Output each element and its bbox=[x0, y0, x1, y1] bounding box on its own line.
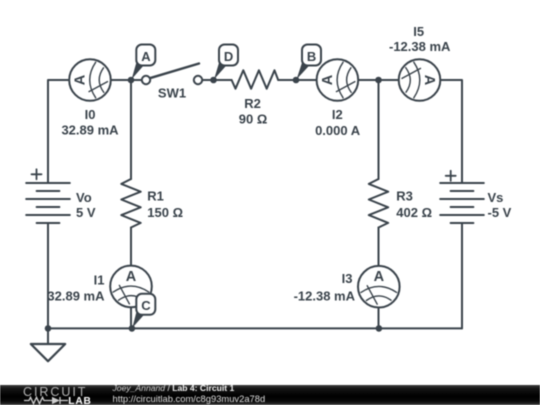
wire left rail top bbox=[48, 80, 70, 183]
svg-text:R3: R3 bbox=[396, 189, 413, 204]
node junction dot C bbox=[129, 325, 136, 332]
svg-text:150 Ω: 150 Ω bbox=[147, 205, 183, 220]
wire bottom rail bbox=[48, 327, 462, 329]
junction dot top right bbox=[375, 77, 382, 84]
wire battery Vo to bottom rail bbox=[47, 223, 49, 328]
wire I5 to right rail bbox=[440, 80, 462, 183]
node junction dot D bbox=[210, 77, 217, 84]
wire battery Vs to bottom rail bbox=[461, 223, 463, 328]
ammeter I2 bbox=[317, 59, 359, 101]
wire I1 to bottom rail bbox=[130, 308, 132, 329]
ammeter I1 bbox=[110, 266, 152, 308]
svg-text:32.89 mA: 32.89 mA bbox=[61, 123, 119, 138]
node A label bbox=[132, 45, 156, 80]
node junction dot A bbox=[128, 77, 135, 84]
svg-text:R2: R2 bbox=[244, 96, 261, 111]
svg-text:Vo: Vo bbox=[76, 190, 92, 205]
svg-text:A: A bbox=[421, 75, 437, 86]
ground bbox=[31, 344, 65, 361]
wire I0 to switch bbox=[111, 79, 146, 81]
wire R2 to I2 bbox=[278, 79, 317, 81]
svg-text:I3: I3 bbox=[342, 271, 353, 286]
svg-text:-5 V: -5 V bbox=[488, 205, 512, 220]
junction dot bottom left bbox=[45, 325, 52, 332]
svg-text:90 Ω: 90 Ω bbox=[239, 112, 268, 127]
resistor R1 bbox=[121, 179, 140, 228]
wire R1 to I1 bbox=[130, 228, 132, 266]
svg-text:I2: I2 bbox=[332, 107, 343, 122]
wire I3 to bottom rail bbox=[378, 308, 380, 328]
wire R3 to I3 bbox=[378, 228, 380, 266]
footer title text bbox=[113, 383, 235, 393]
junction dot bottom right bbox=[376, 325, 383, 332]
svg-text:I0: I0 bbox=[85, 107, 96, 122]
svg-text:32.89 mA: 32.89 mA bbox=[47, 289, 105, 304]
svg-text:-12.38 mA: -12.38 mA bbox=[294, 289, 356, 304]
wire switch to R2 bbox=[198, 79, 232, 81]
battery Vs bbox=[440, 183, 484, 223]
node B label bbox=[297, 45, 321, 80]
svg-text:R1: R1 bbox=[147, 189, 164, 204]
svg-text:-12.38 mA: -12.38 mA bbox=[389, 39, 451, 54]
ammeter I3 bbox=[358, 266, 400, 308]
footer url bbox=[113, 393, 266, 404]
svg-text:B: B bbox=[307, 49, 316, 64]
battery Vo bbox=[26, 183, 70, 223]
svg-text:I5: I5 bbox=[413, 24, 424, 39]
svg-text:0.000 A: 0.000 A bbox=[315, 123, 361, 138]
node junction dot B bbox=[293, 77, 300, 84]
footer bar bbox=[0, 385, 540, 405]
svg-text:D: D bbox=[224, 49, 233, 64]
svg-text:402 Ω: 402 Ω bbox=[396, 205, 432, 220]
svg-text:LAB: LAB bbox=[68, 396, 91, 405]
svg-text:A: A bbox=[126, 269, 137, 285]
node D label bbox=[214, 45, 238, 80]
switch SW1 bbox=[142, 64, 202, 85]
svg-text:A: A bbox=[73, 74, 89, 85]
ammeter I0 bbox=[69, 59, 111, 101]
svg-text:A: A bbox=[374, 269, 385, 285]
wire I2 to I5 bbox=[358, 79, 399, 81]
wire node A down to R1 bbox=[130, 80, 132, 179]
svg-text:5 V: 5 V bbox=[76, 205, 96, 220]
svg-text:SW1: SW1 bbox=[158, 86, 186, 101]
svg-text:I1: I1 bbox=[94, 273, 105, 288]
CircuitLab logo bbox=[0, 385, 110, 405]
svg-text:A: A bbox=[141, 49, 151, 64]
wire top junction down to R3 bbox=[378, 80, 380, 179]
resistor R3 bbox=[369, 179, 388, 228]
svg-text:Vs: Vs bbox=[488, 190, 504, 205]
svg-text:C: C bbox=[141, 298, 151, 313]
resistor R2 bbox=[232, 70, 279, 88]
node C label bbox=[132, 294, 155, 328]
ammeter I5 bbox=[399, 59, 441, 101]
wire ground stem bbox=[47, 328, 49, 344]
svg-text:A: A bbox=[320, 74, 336, 85]
